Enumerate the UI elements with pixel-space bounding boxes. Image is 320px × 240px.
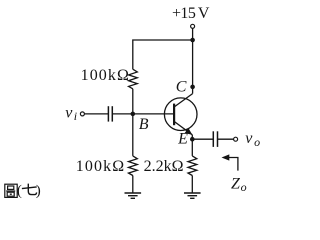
capacitor C1 plates	[107, 106, 109, 121]
svg-text:2.2kΩ: 2.2kΩ	[144, 158, 184, 175]
figure caption glyph tu (CJK drawn)	[5, 184, 17, 197]
svg-text:(: (	[17, 183, 22, 199]
wire node B down to R2	[132, 114, 134, 156]
ground symbol right	[184, 193, 201, 198]
wire node E to capacitor C2	[192, 138, 213, 140]
Zo pointer arrow	[228, 158, 238, 171]
node B junction dot	[131, 112, 136, 117]
svg-text:v: v	[65, 104, 73, 121]
junction dot top rail	[190, 38, 195, 43]
wire RE to ground	[191, 176, 193, 194]
transistor Q1 collector lead	[174, 94, 193, 107]
transistor Q1 emitter arrowhead	[185, 128, 193, 135]
svg-text:o: o	[241, 180, 247, 194]
svg-text:i: i	[74, 109, 77, 123]
wire top rail	[133, 40, 193, 69]
ground symbol left	[125, 193, 142, 198]
wire R2 to ground	[132, 176, 134, 194]
svg-text:o: o	[254, 135, 260, 149]
svg-text:100kΩ: 100kΩ	[76, 158, 125, 175]
transistor Q1 circle	[164, 98, 197, 131]
svg-text:): )	[36, 183, 41, 199]
power terminal circle	[191, 24, 195, 28]
wire base lead B to transistor	[133, 113, 174, 115]
svg-text:+15 V: +15 V	[172, 5, 210, 22]
input terminal circle	[80, 112, 84, 116]
wire collector to top rail	[192, 40, 194, 94]
wire R1 to node B	[132, 89, 134, 114]
transistor Q1 emitter lead	[174, 121, 192, 134]
output terminal circle	[234, 137, 238, 141]
wire capacitor C1 to node B	[112, 113, 133, 115]
resistor R1 100k zigzag	[129, 69, 138, 89]
svg-text:C: C	[176, 79, 187, 96]
svg-text:Z: Z	[231, 176, 241, 193]
svg-text:100kΩ: 100kΩ	[81, 67, 130, 84]
node E junction dot	[190, 137, 195, 142]
node C dot	[190, 85, 195, 90]
svg-text:E: E	[177, 130, 188, 147]
resistor R2 100k zigzag	[129, 156, 138, 176]
wire supply terminal to top rail	[192, 29, 194, 41]
wire capacitor C2 to vo terminal	[218, 138, 234, 140]
svg-text:B: B	[139, 116, 149, 133]
transistor Q1 base bar	[173, 104, 175, 126]
resistor RE 2.2k zigzag	[188, 156, 197, 176]
wire vi terminal to capacitor C1	[85, 113, 109, 115]
svg-text:v: v	[245, 130, 253, 147]
figure caption glyph seven (CJK drawn)	[22, 184, 37, 195]
capacitor C2 plates	[212, 131, 214, 147]
wire emitter down	[191, 135, 193, 156]
